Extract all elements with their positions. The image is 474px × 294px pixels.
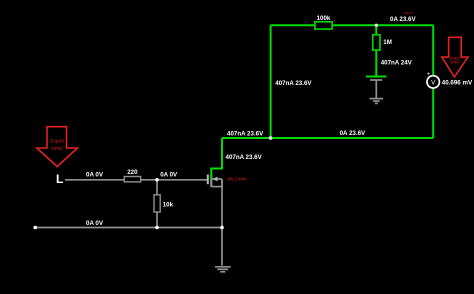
svg-text:0A 0V: 0A 0V	[86, 171, 104, 178]
svg-text:407nA 23.6V: 407nA 23.6V	[227, 130, 264, 137]
svg-text:Esp32: Esp32	[50, 139, 64, 144]
svg-text:407nA 23.6V: 407nA 23.6V	[275, 80, 312, 87]
svg-text:100k: 100k	[317, 15, 331, 22]
svg-text:10k: 10k	[163, 202, 174, 209]
svg-text:GPIO: GPIO	[51, 146, 63, 151]
svg-text:40.696 mV: 40.696 mV	[442, 79, 473, 86]
svg-text:0A 0V: 0A 0V	[86, 220, 104, 227]
svg-text:0A 23.6V: 0A 23.6V	[390, 16, 416, 23]
svg-text:GND: GND	[450, 60, 459, 65]
svg-text:0A 23.6V: 0A 23.6V	[340, 130, 366, 137]
svg-text:407nA 23.6V: 407nA 23.6V	[226, 154, 263, 161]
svg-text:220: 220	[127, 169, 138, 176]
svg-text:407nA 24V: 407nA 24V	[381, 60, 413, 67]
svg-text:V: V	[431, 79, 436, 86]
svg-text:1M: 1M	[383, 39, 392, 46]
svg-text:IRLZ44N: IRLZ44N	[228, 176, 248, 181]
svg-text:Iout1: Iout1	[404, 10, 414, 15]
svg-text:+: +	[427, 72, 431, 78]
svg-text:0A 0V: 0A 0V	[160, 171, 178, 178]
svg-text:L: L	[56, 172, 63, 186]
